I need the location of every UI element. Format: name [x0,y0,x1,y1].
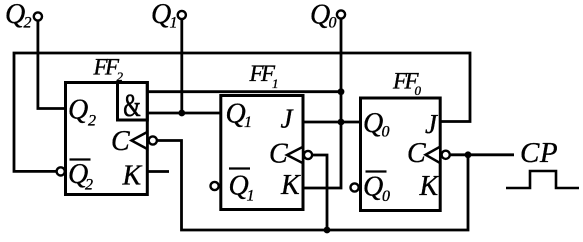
flip-flop FF2 box [66,83,148,195]
svg-text:CP: CP [520,137,558,169]
svg-text:0: 0 [382,188,390,205]
svg-text:K: K [419,171,440,202]
junction Q0 and AND input [338,88,345,95]
svg-text:Q: Q [5,0,25,30]
wire Q2bar feedback to J of FF0 [14,53,470,171]
FF2 clock triangle [132,132,148,149]
wire Q0 column [340,20,343,123]
svg-text:K: K [280,170,301,201]
wire FF2 clock to CP rail [157,141,468,231]
junction Q1 and AND input [178,110,185,117]
node Q0 terminal [337,10,345,18]
svg-text:0: 0 [382,124,390,141]
CP pulse waveform [506,171,579,188]
svg-text:J: J [281,104,295,134]
svg-text:1: 1 [272,76,279,91]
FF1 clock bubble [304,151,312,159]
wire K of FF1 riser to Q0 [303,122,341,188]
svg-text:K: K [122,161,143,192]
FF1 clock triangle [287,147,303,163]
FF0 Q0bar output bubble [351,183,359,191]
wire Q2 column to FF2 Q output [38,20,66,109]
wire Q0 output to J of FF1 [303,121,361,124]
svg-text:J: J [425,109,439,139]
svg-text:C: C [269,139,288,170]
FF0 clock bubble [442,151,450,159]
svg-text:C: C [407,138,426,169]
wire FF1 clock drop [313,155,327,230]
flip-flop FF2 label [93,55,124,85]
junction Q0 and J/K of FF1 [338,119,345,126]
wire K stub of FF2 [147,170,169,173]
AND gate box inside FF2 [118,83,148,121]
FF2 Q2bar output bubble [57,167,65,175]
wire Q1 column [180,19,183,113]
svg-text:Q: Q [68,95,88,126]
svg-text:0: 0 [329,15,337,32]
svg-text:Q: Q [363,108,383,139]
svg-text:1: 1 [170,15,178,32]
junction CP at FF0 clock [465,151,472,158]
svg-text:Q: Q [310,0,330,31]
node Q0 label [310,0,337,32]
wire CP input line [450,153,514,156]
FF0 clock triangle [426,147,441,164]
svg-text:2: 2 [85,177,93,194]
svg-text:2: 2 [24,15,32,32]
node Q2 label [5,0,32,32]
node Q1 terminal [178,11,186,19]
svg-text:&: & [123,88,140,124]
flip-flop FF0 box [361,98,441,211]
label Q1 inside FF1 [226,98,253,131]
label Q0bar inside FF0 [363,172,390,206]
FF2 clock bubble [149,136,157,144]
junction FF1 clock on CP rail [324,227,331,234]
svg-text:Q: Q [151,0,171,30]
label Q1bar inside FF1 [229,169,255,205]
wire AND gate lower input to Q1 [147,112,221,115]
label Q2bar inside FF2 [68,159,93,194]
svg-text:Q: Q [363,172,383,203]
svg-text:1: 1 [247,188,255,205]
wire AND gate upper input to Q0 [147,90,341,93]
FF1 Q1bar output bubble [211,182,219,190]
svg-text:Q: Q [226,98,246,129]
flip-flop FF1 box [221,96,303,210]
svg-text:1: 1 [244,114,252,131]
node Q1 label [151,0,178,32]
flip-flop FF1 label [249,61,279,91]
svg-text:0: 0 [415,83,422,98]
label Q2 inside FF2 [68,95,96,130]
svg-text:C: C [111,126,130,157]
label Q0 inside FF0 [363,108,390,141]
svg-text:2: 2 [88,113,96,130]
flip-flop FF0 label [392,69,422,99]
node Q2 terminal [34,12,42,20]
